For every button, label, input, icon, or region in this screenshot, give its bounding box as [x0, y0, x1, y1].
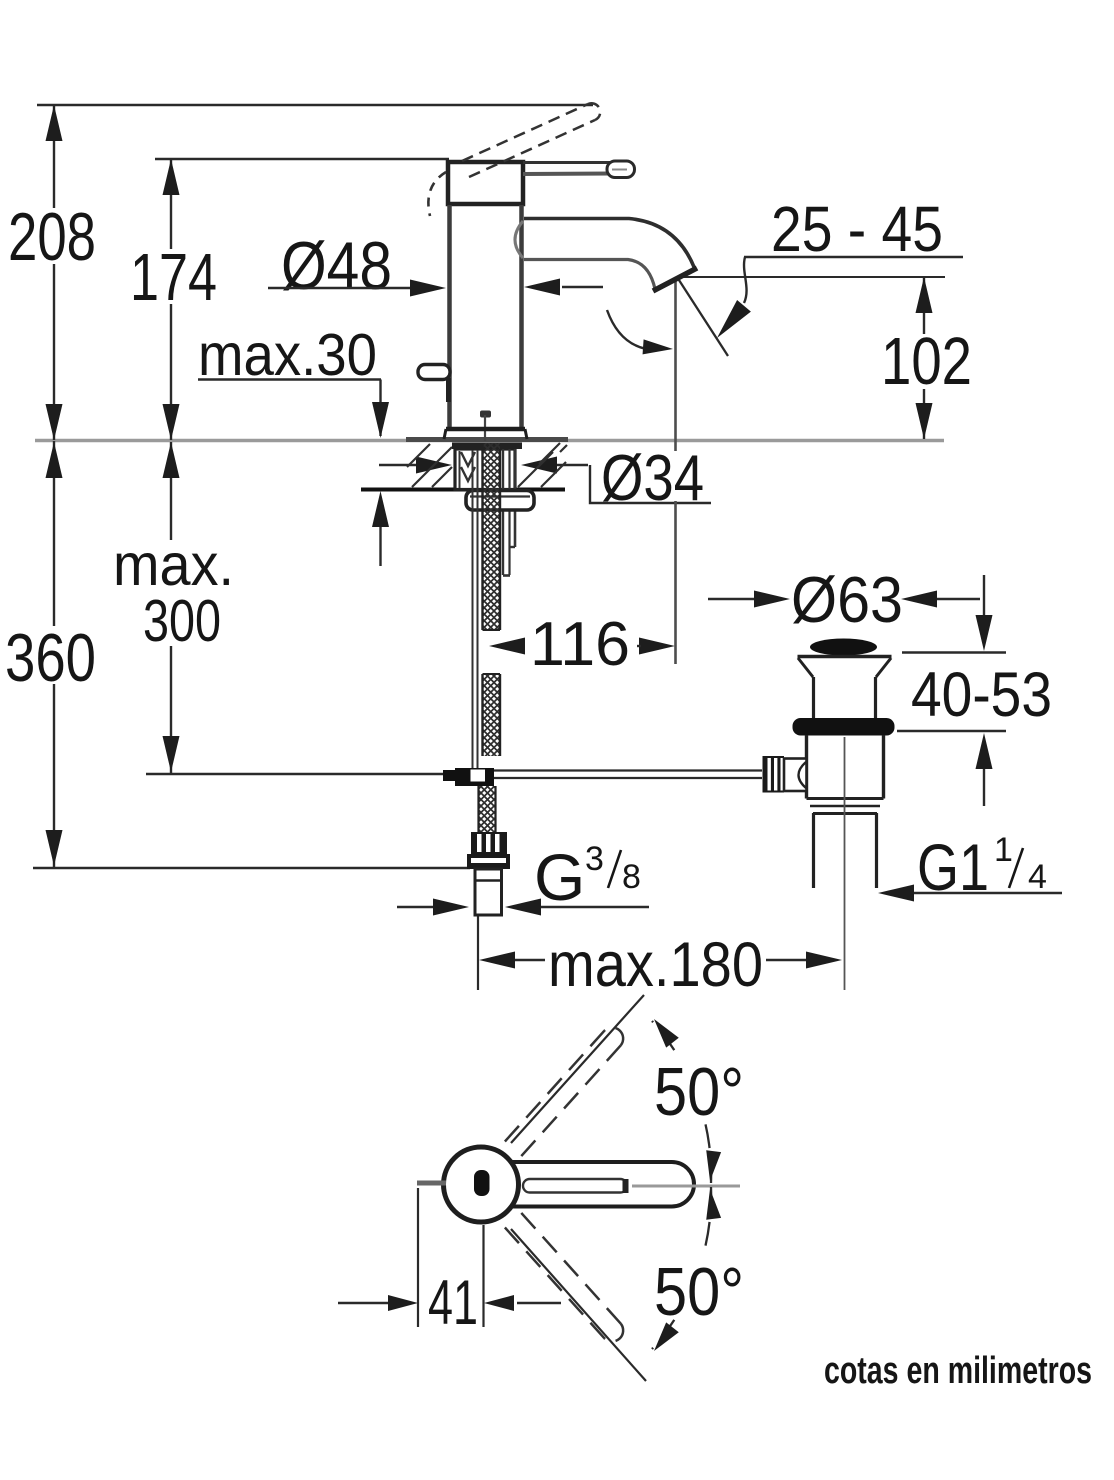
dimension label Ø34 — [598, 451, 710, 501]
dimension max.180 — [477, 916, 479, 990]
wire top reference line 208 — [37, 104, 593, 106]
threaded shank (hatched) — [483, 443, 501, 630]
50 degree arc upper — [652, 1021, 711, 1183]
svg-text:208: 208 — [8, 199, 96, 275]
svg-text:50°: 50° — [654, 1254, 744, 1330]
faucet body column — [447, 205, 452, 430]
svg-text:max.180: max.180 — [548, 930, 763, 1000]
mounting washer box — [455, 449, 515, 490]
wire countertop surface line — [35, 439, 944, 442]
svg-text:Ø63: Ø63 — [791, 563, 903, 636]
drain plug dome — [810, 639, 877, 656]
braided hose lower (hatched) — [479, 786, 496, 832]
svg-text:41: 41 — [428, 1268, 478, 1338]
svg-text:40-53: 40-53 — [911, 660, 1052, 730]
deck hatching left — [407, 444, 452, 487]
drain centerline — [844, 737, 846, 990]
top view slot dot — [474, 1170, 490, 1196]
pop-up rod vertical (double line) — [472, 450, 474, 768]
svg-text:Ø48: Ø48 — [281, 228, 392, 304]
top view faucet circle — [444, 1147, 519, 1222]
pop-up rod knob on body — [418, 365, 450, 380]
horizontal pop-up linkage rod — [494, 769, 762, 771]
dimension G1 1/4 — [911, 892, 1062, 894]
drain gasket — [793, 718, 895, 736]
drain funnel — [798, 658, 813, 677]
wire spout tip extension vertical — [674, 280, 677, 664]
dimension 174 vertical — [170, 159, 172, 440]
svg-text:G1: G1 — [917, 830, 989, 904]
svg-text:cotas en milimetros: cotas en milimetros — [824, 1350, 1092, 1392]
knurled adjuster knob — [763, 756, 785, 793]
shank collar under base — [452, 443, 522, 450]
dimension Ø34 — [379, 464, 420, 466]
dimension 360 left vertical — [53, 441, 55, 867]
dimension 102 — [923, 277, 925, 334]
upper diagonal leader line — [511, 995, 644, 1143]
wire deck underside line — [361, 488, 565, 492]
svg-text:3: 3 — [585, 840, 604, 878]
dimension 40-53 — [902, 651, 1006, 653]
mounting nut — [466, 491, 534, 511]
drain tailpipe — [812, 813, 815, 888]
wire spout outlet plane diagonal — [677, 277, 728, 356]
wire reference line 174 — [155, 158, 449, 160]
lower diagonal line — [511, 1229, 646, 1381]
svg-text:116: 116 — [530, 610, 630, 679]
dimension max.300 vertical — [170, 442, 172, 773]
dashed rotation arc at cap left — [428, 172, 446, 216]
wire 25-45 leader curve — [744, 257, 747, 303]
drain cap rim — [798, 655, 892, 658]
dimension 41 — [338, 1302, 392, 1304]
flow arc arrow under spout — [607, 310, 656, 350]
lever handle (horizontal) — [523, 161, 635, 178]
svg-text:max.30: max.30 — [198, 322, 377, 388]
svg-text:Ø34: Ø34 — [601, 441, 704, 514]
spout aerator face — [653, 268, 697, 291]
dimension Ø63 — [708, 598, 757, 600]
svg-text:300: 300 — [143, 588, 221, 654]
dimension 116 — [489, 638, 525, 655]
dashed lever rotated down 50 — [505, 1213, 623, 1342]
wire spout outlet level line — [678, 276, 945, 278]
top view lever (solid) — [470, 1162, 694, 1207]
dimension G3/8 — [397, 906, 438, 908]
drain neck — [812, 677, 815, 719]
top view centerline right — [632, 1185, 740, 1188]
svg-text:360: 360 — [5, 620, 96, 696]
pivot cross fitting — [455, 768, 494, 786]
pop-up rod guide tube — [514, 449, 517, 547]
svg-text:1: 1 — [994, 831, 1013, 869]
svg-text:G: G — [534, 840, 585, 914]
rod ball joint housing — [784, 759, 807, 792]
svg-text:4: 4 — [1028, 858, 1047, 896]
lever handle raised position (dashed) — [462, 103, 600, 177]
spout — [524, 219, 694, 268]
wire max.300 bottom reference line — [146, 773, 443, 775]
50 degree arc lower — [652, 1187, 711, 1349]
pop-up rod inside body — [480, 411, 491, 418]
G3/8 connector below line — [475, 869, 502, 915]
drain body — [805, 735, 808, 799]
faucet cartridge cap — [448, 162, 523, 204]
deck hatching right — [518, 443, 567, 487]
svg-text:8: 8 — [622, 858, 641, 896]
svg-text:174: 174 — [130, 240, 217, 315]
svg-text:50°: 50° — [654, 1054, 744, 1130]
wire bottom reference line 360 — [33, 867, 470, 869]
svg-text:25 - 45: 25 - 45 — [771, 193, 943, 265]
dimension 208 left vertical — [53, 105, 55, 440]
top view lever inner slot — [523, 1179, 627, 1193]
dashed lever rotated up 50 — [505, 1028, 623, 1157]
svg-text:102: 102 — [881, 324, 972, 399]
faucet base — [446, 427, 525, 432]
braided hose upper (hatched) — [483, 674, 501, 756]
hose end knurled nut — [471, 832, 507, 854]
top view left stub — [417, 1181, 446, 1186]
